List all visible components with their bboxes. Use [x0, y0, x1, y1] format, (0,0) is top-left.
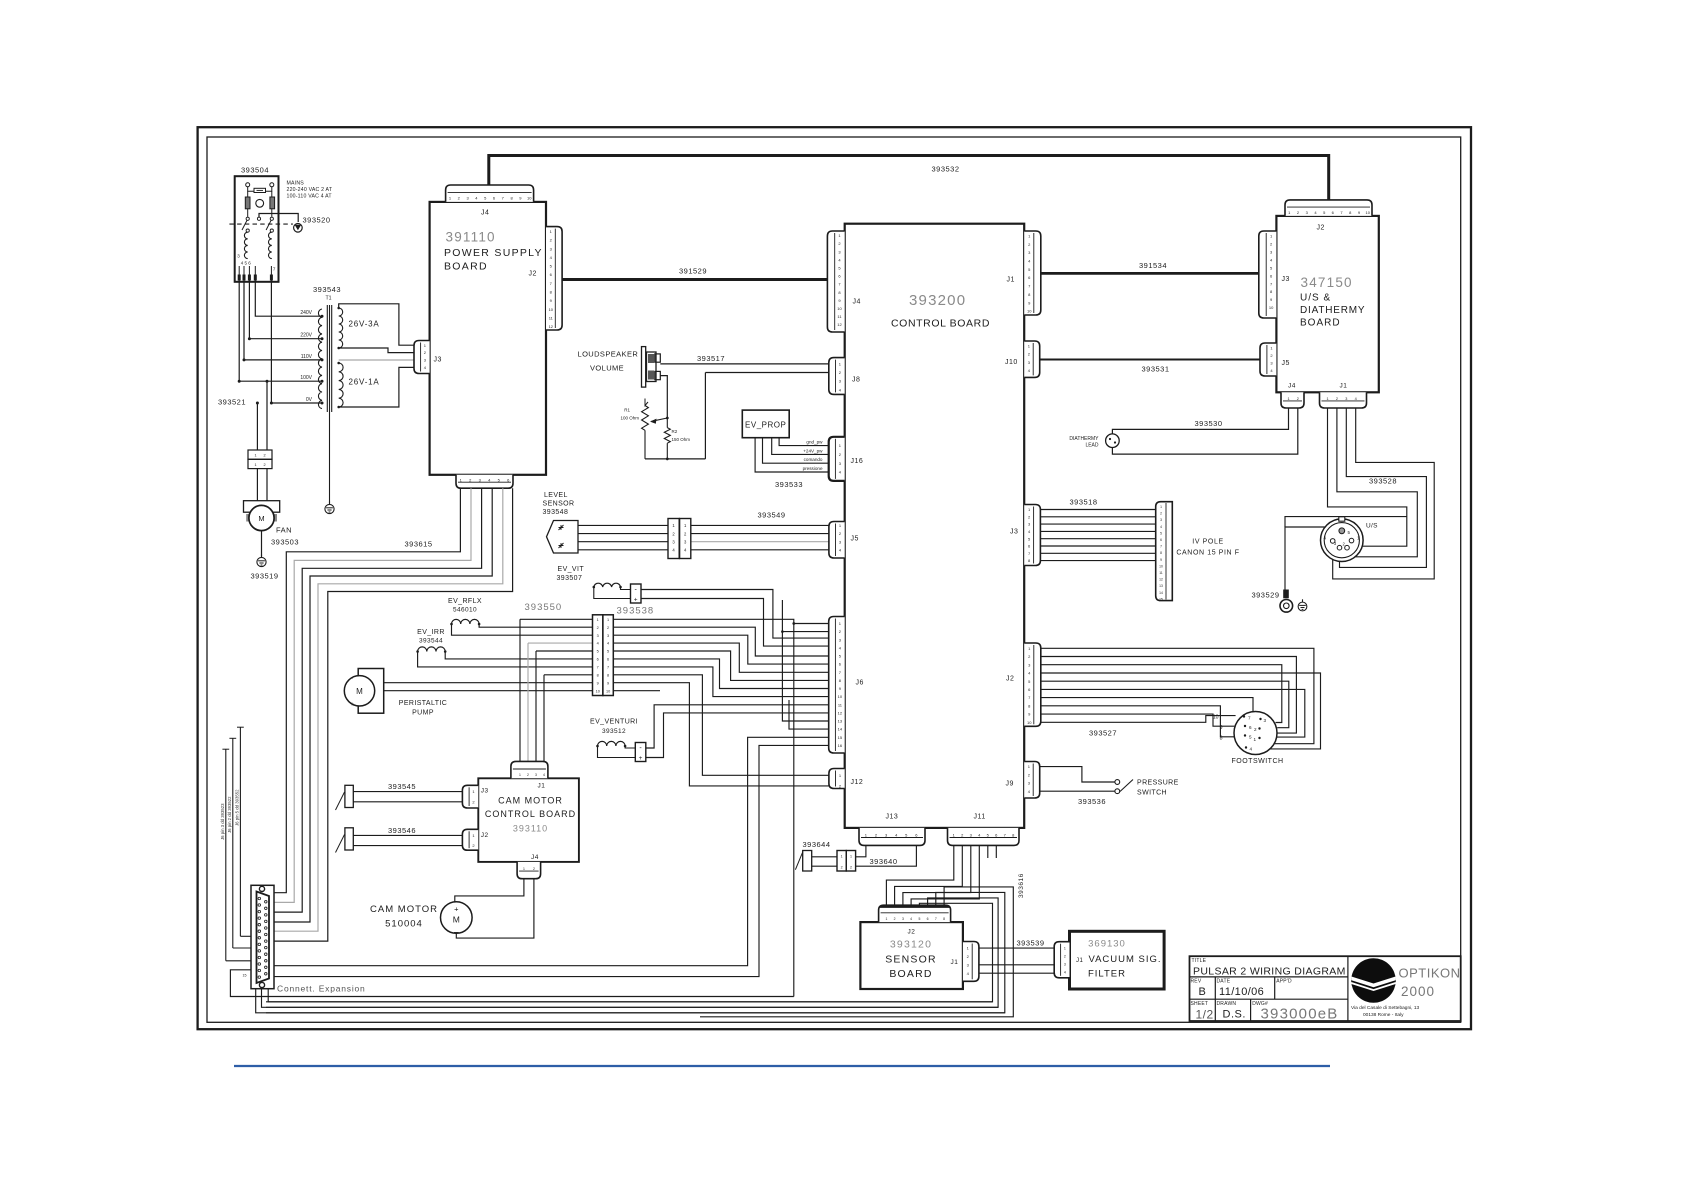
fan ground wire [261, 531, 263, 557]
svg-text:10: 10 [838, 694, 843, 699]
connector 393538 (dual inline) [593, 615, 603, 696]
PSB J4 top connector [446, 185, 534, 202]
svg-text:5: 5 [1249, 735, 1252, 740]
CB J11 bottom connector [948, 828, 1020, 846]
CB J6 left connector [829, 617, 845, 754]
svg-text:+: + [634, 597, 638, 604]
control board 393200 [845, 224, 1024, 828]
wire 393517 speaker to control board J8 [660, 363, 829, 365]
PSB J3 left connector [414, 341, 430, 374]
svg-text:393504: 393504 [241, 166, 269, 175]
sensor board 393120 [860, 922, 963, 989]
switch blades [242, 220, 247, 230]
svg-text:J11: J11 [974, 814, 986, 821]
svg-text:5: 5 [918, 917, 920, 921]
svg-text:393519: 393519 [251, 572, 279, 581]
svg-text:240V: 240V [300, 310, 312, 316]
svg-text:8: 8 [1160, 551, 1162, 555]
inner border frame [207, 137, 1461, 1022]
svg-text:15: 15 [1159, 597, 1163, 601]
svg-text:393517: 393517 [697, 354, 725, 363]
wire inlet pin7 to 0V tap [271, 282, 320, 403]
svg-text:+24V_pw: +24V_pw [803, 448, 823, 453]
svg-text:16: 16 [838, 743, 843, 748]
svg-text:5: 5 [607, 650, 609, 654]
svg-text:3: 3 [1264, 718, 1267, 723]
svg-text:9: 9 [607, 681, 609, 685]
svg-text:VACUUM SIG.: VACUUM SIG. [1088, 954, 1161, 965]
svg-text:1: 1 [1287, 397, 1289, 401]
USB J2 top connector [1285, 200, 1372, 216]
peristaltic pump [358, 669, 384, 714]
svg-text:+: + [639, 755, 643, 762]
fan feed wires [256, 403, 258, 450]
svg-text:1: 1 [597, 618, 599, 622]
svg-text:1: 1 [850, 855, 852, 859]
svg-text:6: 6 [607, 658, 609, 662]
secondary wires to PSB J3 [339, 304, 414, 345]
svg-text:SENSOR: SENSOR [543, 501, 575, 508]
wires connector to fan motor [256, 469, 258, 501]
inline connector pair 393640 [837, 851, 846, 872]
svg-text:15: 15 [838, 735, 843, 740]
svg-text:J6 pin 2 dd 393522: J6 pin 2 dd 393522 [227, 796, 232, 833]
cam motor control board 393110 [478, 778, 579, 862]
svg-text:4: 4 [597, 642, 599, 646]
mains inlet internals: fuse, lamp, switch [246, 183, 250, 187]
switch pole circles [246, 217, 249, 220]
svg-text:B: B [1199, 986, 1206, 998]
transformer core ground wire [329, 412, 331, 504]
svg-text:J6 pin 5 dd 393552: J6 pin 5 dd 393552 [235, 789, 240, 826]
wire inlet pin to 220V tap [249, 282, 320, 339]
svg-text:3: 3 [607, 634, 609, 638]
svg-text:CANON 15 PIN F: CANON 15 PIN F [1176, 550, 1239, 557]
svg-text:DRAWN: DRAWN [1217, 1001, 1237, 1007]
level sensor diodes [559, 525, 564, 530]
ground symbol 393520 [294, 224, 303, 233]
svg-text:393538: 393538 [617, 606, 655, 617]
svg-text:12: 12 [549, 324, 554, 329]
solenoid valve EV_PROP [742, 410, 789, 438]
fuse holders (hatched) [245, 197, 250, 209]
svg-text:100V: 100V [300, 375, 312, 381]
svg-text:_: _ [453, 924, 459, 933]
wires J11 pins 5,6 stubs [987, 845, 989, 858]
svg-text:PULSAR 2 WIRING DIAGRAM: PULSAR 2 WIRING DIAGRAM [1193, 966, 1346, 978]
svg-text:J16: J16 [851, 458, 864, 465]
svg-text:393512: 393512 [602, 728, 626, 735]
svg-text:4: 4 [607, 642, 609, 646]
svg-text:220V: 220V [300, 333, 312, 339]
svg-text:IV POLE: IV POLE [1192, 539, 1223, 546]
svg-text:10: 10 [549, 307, 554, 312]
svg-text:110V: 110V [301, 354, 313, 360]
svg-text:393507: 393507 [557, 575, 583, 582]
CAM J4 bottom connector [517, 862, 541, 879]
svg-text:11: 11 [1159, 571, 1163, 575]
svg-text:12: 12 [837, 322, 842, 327]
svg-text:26V-1A: 26V-1A [349, 378, 380, 387]
svg-text:OPTIKON: OPTIKON [1399, 966, 1461, 981]
svg-text:10: 10 [527, 196, 532, 201]
wire 393530 USB J4 to diathermy lead [1112, 408, 1288, 434]
svg-text:393548: 393548 [543, 509, 569, 516]
svg-text:393616: 393616 [1018, 873, 1025, 898]
wire J6 pin2 dd 393522 (vertical, labelled) [232, 738, 234, 948]
svg-text:R2: R2 [672, 429, 678, 434]
svg-text:2: 2 [1160, 512, 1162, 516]
svg-text:10: 10 [1269, 305, 1274, 310]
svg-text:393543: 393543 [313, 285, 341, 294]
svg-text:6: 6 [597, 658, 599, 662]
CB J9 right connector [1024, 762, 1040, 799]
svg-text:J13: J13 [886, 814, 899, 821]
svg-text:3: 3 [1345, 397, 1347, 401]
inline connector pair (level sensor cable) [668, 519, 679, 559]
svg-text:391529: 391529 [679, 267, 707, 276]
wires 393539 sensor J1 to vacuum filter [979, 947, 1054, 949]
svg-text:J6: J6 [856, 680, 864, 687]
USB J3 left connector [1259, 231, 1277, 318]
svg-text:J1: J1 [1340, 383, 1348, 390]
svg-text:Via del Casale di Settebagni,: Via del Casale di Settebagni, 13 [1351, 1005, 1420, 1011]
CB J13 bottom connector [859, 828, 925, 846]
svg-text:8: 8 [597, 673, 599, 677]
svg-text:393530: 393530 [1195, 419, 1223, 428]
svg-text:J2: J2 [481, 832, 489, 839]
USB J1 bottom connector [1320, 392, 1367, 408]
svg-text:M: M [258, 514, 264, 523]
wire bundle 393615 PSB to expansion connector [266, 488, 460, 893]
svg-text:3: 3 [902, 917, 904, 921]
svg-text:BOARD: BOARD [889, 968, 932, 980]
wire bundle 393528 USB J1 to U/S connector [1328, 408, 1407, 546]
dashed gang line [229, 223, 293, 225]
svg-text:+: + [350, 702, 354, 708]
svg-text:4: 4 [1160, 525, 1162, 529]
svg-text:J1: J1 [538, 783, 546, 790]
cam motor 510004 [441, 902, 473, 934]
svg-text:J5: J5 [851, 536, 859, 543]
svg-text:J2: J2 [1006, 676, 1014, 683]
svg-text:15: 15 [243, 974, 247, 978]
wires into 393538 left pins [520, 618, 593, 620]
svg-text:SWITCH: SWITCH [1137, 790, 1167, 797]
svg-text:J9: J9 [1006, 781, 1014, 788]
wire 393545 switch to CAM J3 [353, 791, 462, 793]
svg-text:J1: J1 [951, 959, 959, 966]
svg-text:1: 1 [607, 618, 609, 622]
fan connector blocks [248, 450, 272, 459]
svg-text:10: 10 [1159, 564, 1163, 568]
CB J5 left connector [829, 522, 845, 559]
svg-text:2: 2 [533, 867, 535, 871]
svg-text:POWER SUPPLY: POWER SUPPLY [444, 247, 543, 259]
svg-text:393503: 393503 [271, 538, 299, 547]
svg-text:393550: 393550 [525, 602, 563, 613]
svg-text:SENSOR: SENSOR [885, 954, 937, 966]
svg-text:4 5 6: 4 5 6 [241, 261, 252, 266]
wire inlet pin to 110V tap [244, 282, 321, 360]
svg-text:BOARD: BOARD [1300, 318, 1341, 329]
svg-text:2: 2 [1254, 727, 1257, 732]
svg-text:7: 7 [1160, 545, 1162, 549]
svg-text:12: 12 [838, 711, 843, 716]
svg-text:347150: 347150 [1301, 275, 1353, 290]
svg-text:00138 Rome - Italy: 00138 Rome - Italy [1363, 1012, 1404, 1018]
svg-text:5: 5 [597, 650, 599, 654]
svg-text:10: 10 [837, 306, 842, 311]
footswitch connector circle [1234, 712, 1277, 755]
svg-text:393539: 393539 [1017, 939, 1045, 948]
svg-text:9: 9 [1220, 725, 1223, 731]
svg-text:10: 10 [596, 689, 600, 693]
expansion connector pins [258, 897, 261, 900]
wire J13 pin6 to 393640 pin2 [856, 845, 917, 866]
svg-text:2: 2 [1064, 955, 1066, 959]
expansion connector shell [251, 885, 274, 988]
wire J6 pin13 vertical link [782, 600, 828, 721]
svg-text:APP'D: APP'D [1276, 979, 1292, 985]
EV_VIT wiring to J6 pins 3,4 [621, 587, 631, 590]
CB J2 right connector [1024, 643, 1041, 726]
svg-text:11/10/06: 11/10/06 [1219, 986, 1264, 998]
EV_VENTURI wires to J6 pins 11,12 [646, 705, 829, 748]
R1 wiper arrow [652, 418, 668, 421]
indicator lamp [256, 199, 264, 207]
IV pole canon 15 pin connector [1156, 502, 1173, 601]
sensor J2 top connector [879, 905, 951, 922]
svg-text:1: 1 [885, 917, 887, 921]
wire inlet pin to 100V tap [239, 282, 320, 381]
svg-text:PERISTALTIC: PERISTALTIC [399, 700, 447, 707]
expansion bottom wires to sensor area [268, 989, 992, 1002]
CB J4 left connector [827, 231, 844, 332]
svg-text:U/S &: U/S & [1300, 293, 1331, 304]
fan ground symbol 393519 [257, 557, 266, 566]
svg-text:LEVEL: LEVEL [544, 492, 568, 499]
USB J4 bottom connector [1281, 392, 1304, 408]
svg-text:J1: J1 [1007, 277, 1015, 284]
svg-text:Connett. Expansion: Connett. Expansion [277, 984, 366, 994]
svg-text:510004: 510004 [385, 919, 423, 930]
svg-text:6: 6 [1160, 538, 1162, 542]
svg-text:DATE: DATE [1217, 979, 1231, 985]
blue footer rule [234, 1065, 1330, 1067]
svg-text:393528: 393528 [1369, 477, 1397, 486]
svg-text:CAM MOTOR: CAM MOTOR [498, 796, 563, 806]
svg-text:M: M [356, 687, 363, 696]
svg-text:393532: 393532 [932, 165, 960, 174]
svg-text:393640: 393640 [870, 857, 898, 866]
svg-text:2: 2 [607, 626, 609, 630]
wire 393532 power supply J4 to U/S board J2 [489, 156, 1329, 201]
svg-text:EV_IRR: EV_IRR [417, 629, 445, 636]
svg-text:2: 2 [263, 463, 265, 467]
title block frame [1190, 956, 1461, 1021]
svg-text:J12: J12 [851, 779, 864, 786]
wires 393616 sensor J2 pins 5-8 to expansion connector [266, 903, 993, 1002]
wire J13 pin1 to 393640 [856, 845, 866, 856]
svg-text:R1: R1 [624, 408, 630, 413]
USB J5 left connector [1260, 343, 1276, 376]
potentiometer R1 100 Ohm [645, 399, 648, 406]
svg-text:3: 3 [597, 634, 599, 638]
svg-text:393531: 393531 [1142, 365, 1170, 374]
microswitch block (393545) [345, 785, 353, 807]
svg-text:393533: 393533 [775, 480, 803, 489]
svg-text:10: 10 [1365, 210, 1370, 215]
svg-text:1: 1 [1064, 947, 1066, 951]
transformer secondary winding 26V-3A [339, 308, 343, 348]
ground lug 393529 [1283, 590, 1289, 599]
svg-text:3: 3 [535, 773, 537, 777]
svg-text:T1: T1 [326, 296, 332, 302]
svg-text:8: 8 [607, 673, 609, 677]
svg-text:9: 9 [1160, 558, 1162, 562]
svg-text:J3: J3 [1282, 276, 1290, 283]
svg-text:393200: 393200 [909, 292, 966, 309]
svg-text:VOLUME: VOLUME [590, 364, 624, 373]
svg-text:J4: J4 [531, 854, 539, 861]
wires 393538 pins 8,9 to J12 [613, 675, 829, 776]
svg-text:393644: 393644 [803, 840, 831, 849]
CAM J2 left connector [462, 829, 478, 850]
U/S and diathermy board 347150 [1276, 216, 1378, 392]
svg-text:+: + [454, 905, 459, 914]
svg-text:J3: J3 [434, 357, 442, 364]
PSB J2 right connector [546, 227, 562, 330]
CB J3 right connector [1024, 505, 1040, 566]
svg-text:100-110 VAC 4 AT: 100-110 VAC 4 AT [287, 194, 333, 200]
svg-text:391534: 391534 [1139, 261, 1167, 270]
svg-text:393527: 393527 [1089, 729, 1117, 738]
CB J16 left connector [829, 437, 845, 481]
svg-text:100 Ohm: 100 Ohm [620, 416, 639, 421]
wires CAM J4 to cam motor [455, 879, 524, 902]
svg-text:J4: J4 [1288, 383, 1296, 390]
svg-text:-: - [351, 676, 353, 682]
speaker lower terminal wire [660, 376, 667, 418]
svg-text:2: 2 [1297, 397, 1299, 401]
wire 393531 CB J10 to USB J5 [1040, 359, 1260, 361]
wires 393538 to control board J6 [613, 619, 794, 996]
wire 391529 PSB J2 to control board J4 [562, 278, 828, 281]
svg-text:393615: 393615 [405, 540, 433, 549]
svg-text:MAINS: MAINS [287, 181, 305, 187]
svg-text:10: 10 [1213, 715, 1219, 721]
svg-text:comando: comando [804, 457, 823, 462]
svg-text:2: 2 [263, 454, 265, 458]
CB J1 right connector [1024, 231, 1041, 315]
svg-text:13: 13 [838, 719, 843, 724]
svg-text:FOOTSWITCH: FOOTSWITCH [1232, 758, 1284, 765]
svg-text:391110: 391110 [446, 230, 496, 245]
svg-text:CONTROL BOARD: CONTROL BOARD [891, 318, 990, 330]
svg-text:10: 10 [1027, 309, 1032, 314]
svg-text:D.S.: D.S. [1223, 1009, 1246, 1021]
resistor R2 150 Ohm [666, 418, 668, 428]
wires 393538 to cam motor control board [519, 619, 521, 761]
svg-text:2: 2 [841, 866, 843, 870]
wire J6 pin3 dd 393523 (vertical, labelled) [225, 749, 227, 961]
svg-text:EV_RFLX: EV_RFLX [448, 598, 482, 605]
svg-text:1: 1 [1326, 397, 1328, 401]
wire 393536 CB J9 to pressure switch [1040, 767, 1115, 782]
inlet bottom pins [238, 266, 240, 282]
svg-text:10: 10 [606, 689, 610, 693]
svg-text:PUMP: PUMP [412, 710, 434, 717]
diathermy lead connector [1106, 434, 1120, 448]
svg-text:2: 2 [1336, 397, 1338, 401]
svg-text:FILTER: FILTER [1088, 969, 1126, 980]
transformer secondary winding 26V-1A [339, 363, 343, 407]
svg-text:26V-3A: 26V-3A [349, 320, 380, 329]
svg-text:6: 6 [927, 917, 929, 921]
PSB bottom connector pins 1-6 [456, 475, 513, 488]
svg-text:393536: 393536 [1078, 797, 1106, 806]
svg-text:1/2: 1/2 [1196, 1007, 1214, 1021]
svg-text:1: 1 [523, 867, 525, 871]
svg-text:393546: 393546 [388, 826, 416, 835]
wire 393538 pin10 stub [613, 690, 660, 692]
transformer primary winding [318, 309, 322, 409]
microswitch block (393546) [345, 828, 353, 850]
svg-text:3: 3 [1160, 518, 1162, 522]
wire inlet pin to 240V tap [255, 282, 320, 316]
svg-text:546010: 546010 [453, 607, 477, 614]
svg-text:2: 2 [850, 866, 852, 870]
svg-text:3: 3 [1064, 963, 1066, 967]
svg-text:4: 4 [1250, 747, 1253, 752]
svg-text:EV_PROP: EV_PROP [745, 421, 786, 430]
svg-text:393120: 393120 [890, 939, 932, 951]
svg-text:TITLE: TITLE [1192, 958, 1207, 964]
svg-text:J4: J4 [481, 210, 489, 217]
svg-text:gnd_pw: gnd_pw [806, 440, 823, 445]
svg-text:2: 2 [894, 917, 896, 921]
wire U/S pin5 to ground ring 393529 [1285, 527, 1340, 590]
svg-text:J5: J5 [1282, 360, 1290, 367]
ground symbol near lug [1298, 602, 1307, 611]
svg-text:8: 8 [943, 917, 945, 921]
svg-text:10: 10 [1027, 720, 1032, 725]
svg-text:9: 9 [597, 681, 599, 685]
svg-text:7: 7 [607, 666, 609, 670]
wire to chassis ground 393520 [259, 214, 298, 223]
svg-text:1: 1 [254, 454, 256, 458]
fan motor M 393503 [244, 501, 280, 513]
CB J12 left connector [829, 769, 845, 789]
filter J1 left connector [1054, 942, 1069, 978]
svg-text:M: M [453, 915, 460, 925]
svg-text:J8: J8 [852, 377, 860, 384]
wires J11 pins 1-4 to sensor J2 pins 1-4 [886, 845, 953, 905]
svg-text:5: 5 [1160, 531, 1162, 535]
transformer core [326, 305, 328, 412]
wire 393549 level sensor to J5 [578, 524, 668, 526]
svg-text:393000eB: 393000eB [1261, 1006, 1339, 1023]
svg-text:2000: 2000 [1401, 984, 1435, 999]
svg-text:J2: J2 [908, 929, 916, 936]
svg-text:CONTROL BOARD: CONTROL BOARD [485, 809, 576, 819]
svg-text:4: 4 [543, 773, 545, 777]
svg-text:7: 7 [1248, 716, 1251, 721]
svg-text:393529: 393529 [1251, 591, 1279, 600]
svg-text:LOUDSPEAKER: LOUDSPEAKER [578, 350, 639, 359]
wires J6 pins 14,15,16 [789, 700, 829, 729]
